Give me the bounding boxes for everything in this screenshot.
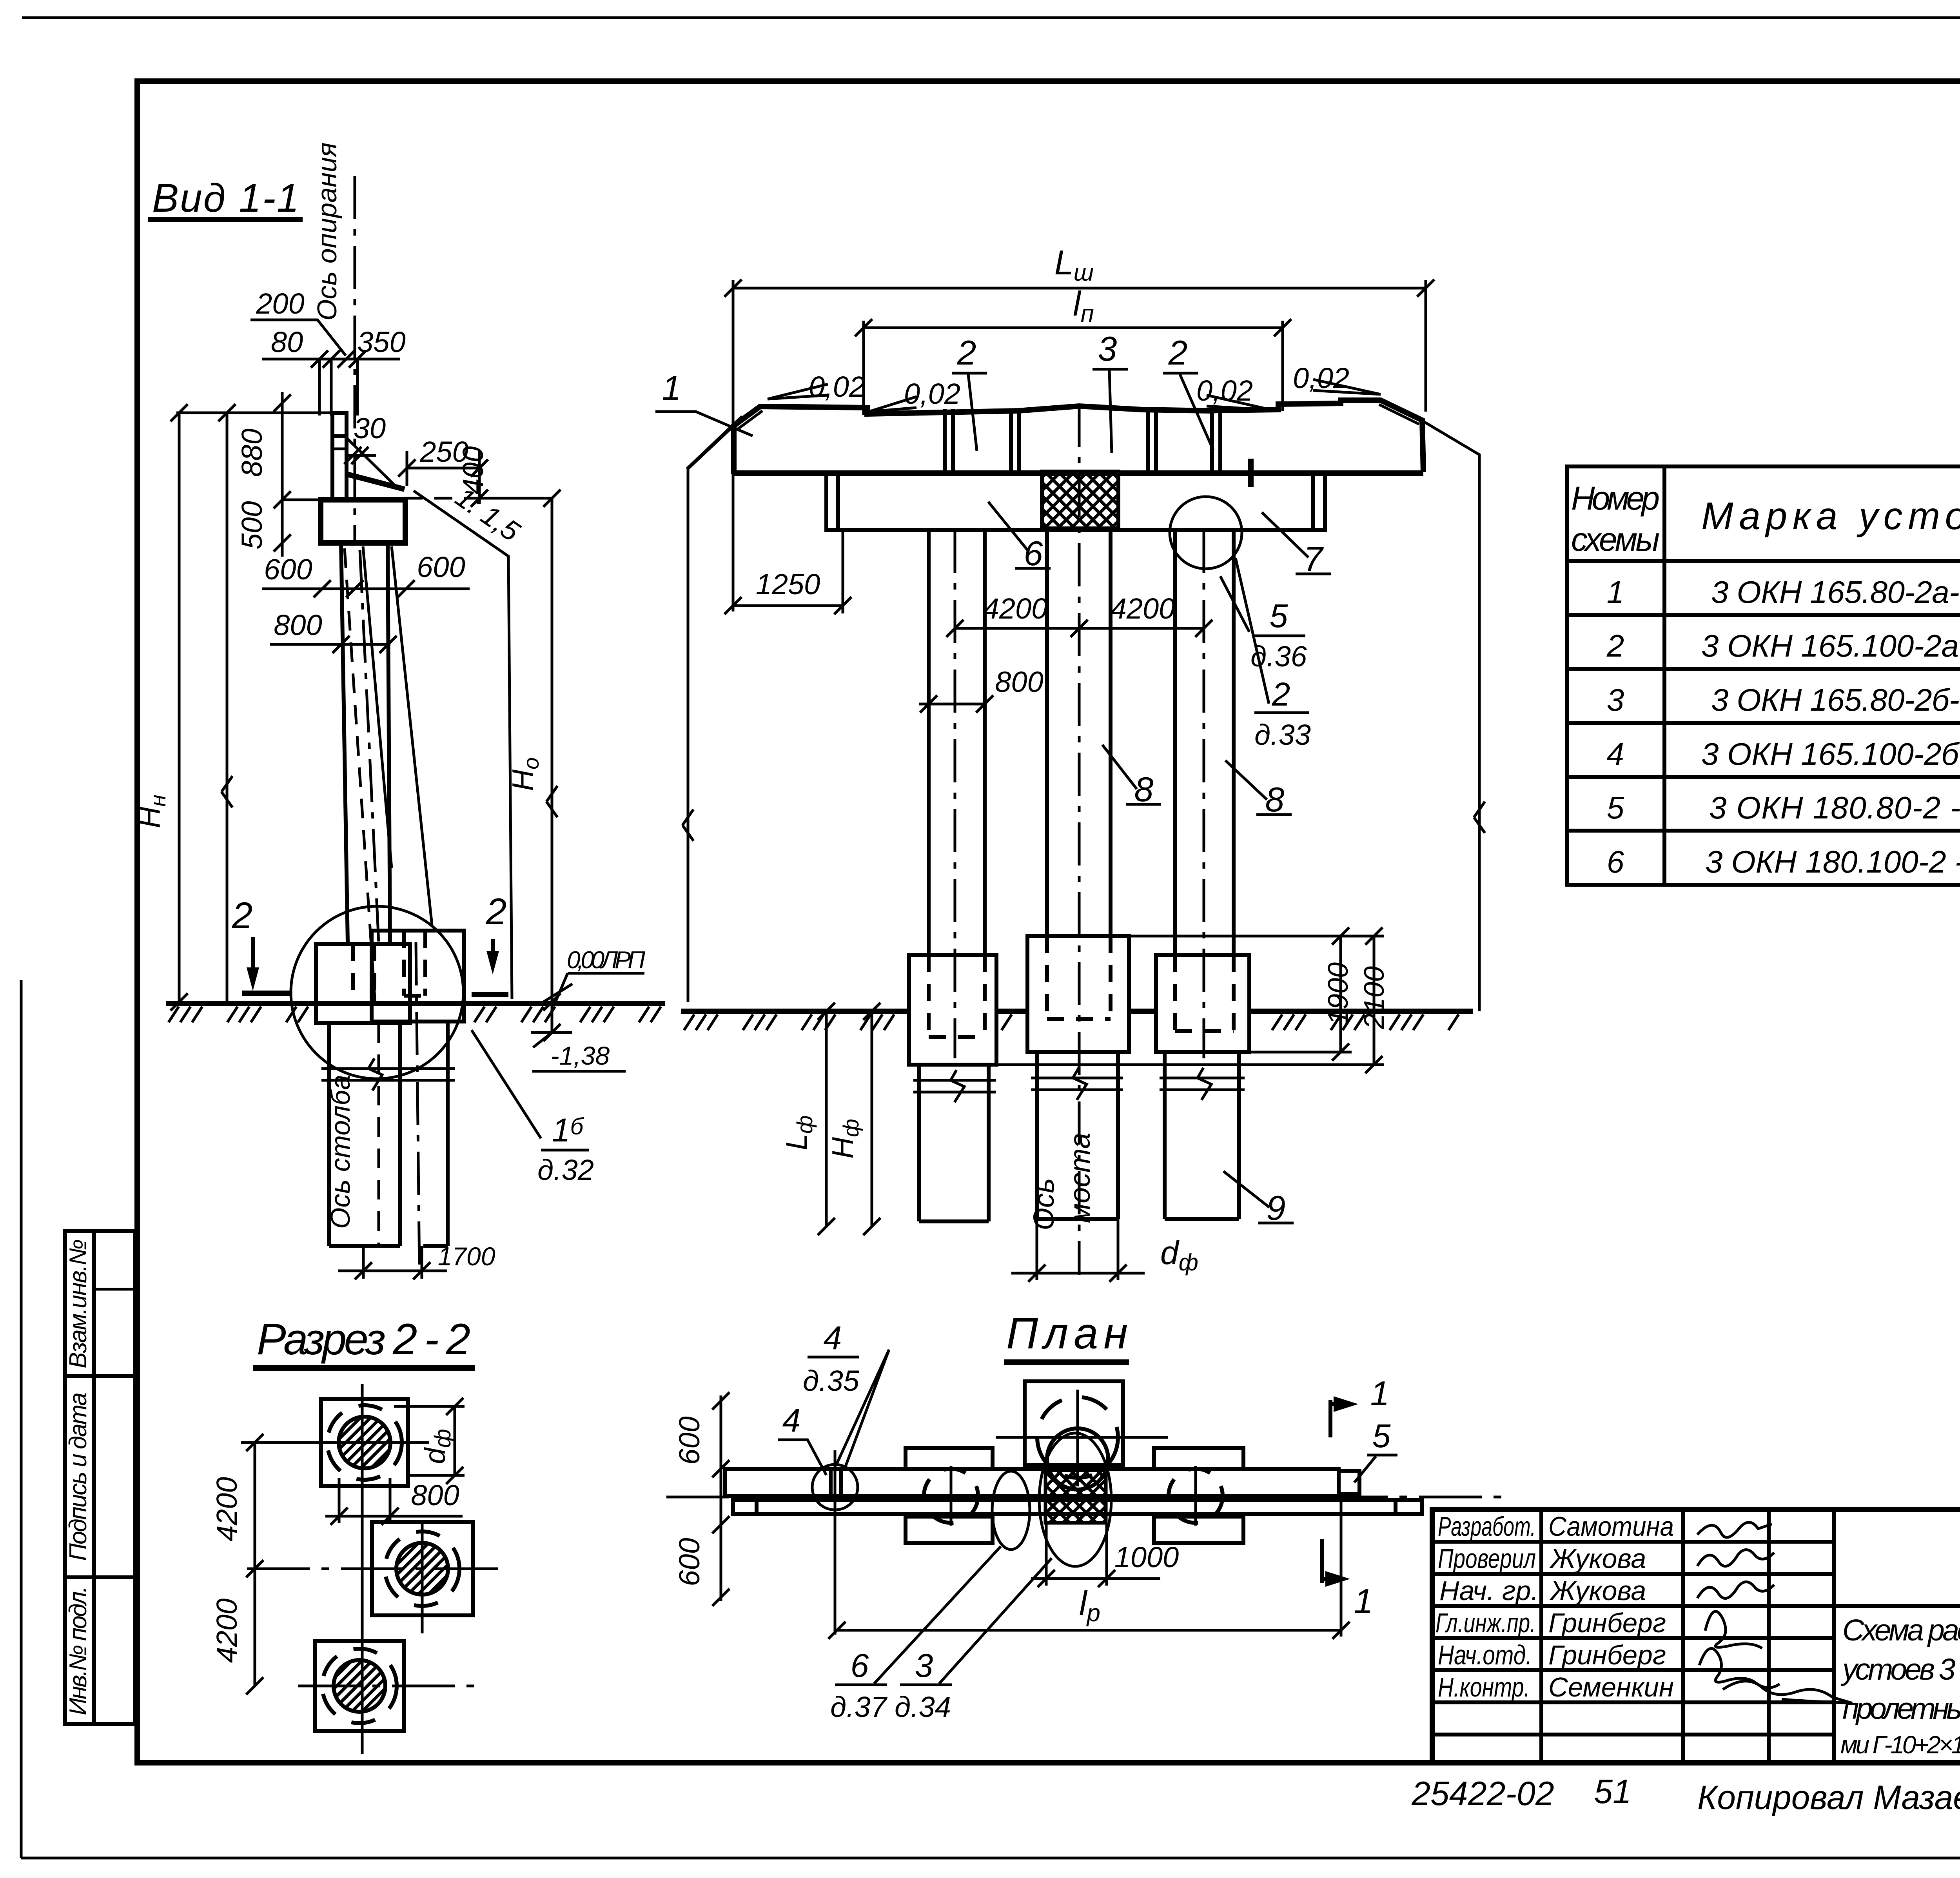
- bearing axis centerline: [354, 176, 356, 546]
- column shaft (battered): [341, 543, 348, 942]
- svg-text:Нач.отд.: Нач.отд.: [1438, 1640, 1532, 1670]
- svg-text:Разработ.: Разработ.: [1438, 1511, 1536, 1542]
- cabinet wall (shkafnaya stenka): [332, 413, 347, 500]
- central block square: [1025, 1381, 1123, 1465]
- deck slab outline: [734, 400, 1423, 474]
- top horizontal extension line at column top: [176, 412, 333, 414]
- svg-text:8: 8: [1134, 770, 1154, 809]
- dims Lf Hf: [825, 1011, 828, 1227]
- svg-text:2: 2: [1606, 628, 1624, 663]
- footing square 3: [315, 1641, 404, 1731]
- svg-text:1900: 1900: [1323, 962, 1354, 1025]
- svg-text:Семенкин: Семенкин: [1548, 1672, 1674, 1702]
- svg-text:9: 9: [1267, 1188, 1286, 1227]
- bearing pad mark: [1248, 459, 1254, 487]
- dims 600 600: [720, 1395, 722, 1601]
- leaders 6 7: [988, 502, 1051, 568]
- svg-text:6: 6: [851, 1647, 869, 1684]
- svg-text:5: 5: [1270, 597, 1288, 634]
- svg-text:4200: 4200: [211, 1599, 243, 1663]
- left wing edge to ground: [688, 426, 734, 1002]
- dims 1900 2100: [1131, 935, 1384, 938]
- bottom margin texts: [1411, 1773, 1960, 1816]
- svg-text:д.37: д.37: [830, 1691, 888, 1723]
- svg-text:Взам.инв.№: Взам.инв.№: [65, 1239, 92, 1368]
- svg-text:1700: 1700: [438, 1242, 495, 1271]
- svg-text:0,00ЛРП: 0,00ЛРП: [567, 947, 645, 974]
- svg-text:2: 2: [1272, 676, 1290, 713]
- detail circle (right bearing): [1170, 497, 1242, 569]
- fraction 2/d.33: [1236, 558, 1269, 704]
- fraction 5/d.36: [1220, 576, 1249, 632]
- column centerlines: [954, 530, 956, 1058]
- signatures: [1697, 1522, 1772, 1537]
- svg-text:3 ОКН 165.100-2б-ф: 3 ОКН 165.100-2б-ф: [1701, 737, 1960, 771]
- svg-text:ми Г-10+2×1,5;Г-11,5+2×0,75; Г: ми Г-10+2×1,5;Г-11,5+2×0,75; Г-11,5+2×1,…: [1840, 1731, 1960, 1759]
- svg-text:Жукова: Жукова: [1549, 1543, 1646, 1574]
- svg-text:3: 3: [1607, 682, 1624, 717]
- svg-text:200: 200: [256, 287, 304, 320]
- foundation sockets (footings, view 1-1): [316, 944, 410, 1023]
- svg-text:2: 2: [1168, 333, 1188, 372]
- svg-text:800: 800: [274, 609, 322, 641]
- svg-text:Гринберг: Гринберг: [1548, 1640, 1666, 1670]
- svg-text:3 ОКН 165.80-2а-ф: 3 ОКН 165.80-2а-ф: [1711, 575, 1960, 610]
- svg-text:3 ОКН 180.100-2 -ф: 3 ОКН 180.100-2 -ф: [1705, 844, 1960, 879]
- Ho dimension line: [551, 498, 554, 1002]
- svg-text:800: 800: [411, 1479, 459, 1511]
- svg-text:1: 1: [1607, 575, 1624, 610]
- cap beam: [826, 473, 1325, 530]
- svg-text:д.35: д.35: [803, 1364, 860, 1397]
- dim df right of sq1: [394, 1405, 465, 1408]
- slab joints: [945, 408, 1220, 473]
- svg-text:80: 80: [271, 326, 303, 358]
- right wing edge to ground: [1423, 421, 1479, 1011]
- svg-text:1: 1: [1370, 1374, 1390, 1413]
- bearing ledge slant: [347, 474, 405, 489]
- dim 1000: [1045, 1523, 1048, 1586]
- central hatched block: [1045, 1470, 1106, 1523]
- ground line (elevation): [681, 1009, 1473, 1014]
- svg-text:5: 5: [1372, 1417, 1391, 1454]
- svg-text:6: 6: [1024, 534, 1043, 573]
- piles below (view 1-1): [327, 1023, 331, 1246]
- svg-text:4200: 4200: [1111, 592, 1175, 625]
- ground line (view 1-1): [166, 1001, 665, 1006]
- dim 800 below sq1: [338, 1478, 341, 1523]
- svg-text:Самотина: Самотина: [1548, 1511, 1674, 1542]
- svg-text:Ось столба: Ось столба: [325, 1075, 356, 1229]
- svg-text:600: 600: [264, 553, 312, 586]
- dim df: [1036, 1219, 1038, 1280]
- svg-text:600: 600: [673, 1538, 706, 1586]
- svg-text:0,02: 0,02: [904, 377, 960, 410]
- columns: [929, 530, 1234, 955]
- svg-text:7: 7: [1304, 539, 1324, 578]
- svg-text:Схема расположения элементов: Схема расположения элементов: [1842, 1613, 1960, 1647]
- svg-text:4: 4: [1607, 737, 1624, 771]
- svg-text:Марка устоя: Марка устоя: [1701, 494, 1960, 537]
- slope line 1:1,5: [414, 491, 512, 999]
- left attachment column: [65, 1231, 135, 1724]
- svg-text:30: 30: [354, 412, 386, 445]
- svg-text:800: 800: [995, 666, 1043, 698]
- svg-text:пролетные строения с габарита-: пролетные строения с габарита-: [1842, 1692, 1960, 1726]
- svg-text:д.32: д.32: [537, 1154, 594, 1186]
- leaders 8 8: [1102, 745, 1161, 804]
- svg-text:0,02: 0,02: [1196, 374, 1253, 407]
- Hn dimension lines: [178, 413, 181, 1002]
- svg-text:3 ОКН 165.80-2б-ф: 3 ОКН 165.80-2б-ф: [1711, 682, 1960, 717]
- svg-text:Гринберг: Гринберг: [1548, 1608, 1666, 1638]
- svg-text:2: 2: [232, 895, 253, 936]
- footings: [909, 955, 996, 1065]
- dim 4200 / 4200: [254, 1443, 256, 1686]
- footing square 1: [321, 1399, 408, 1486]
- svg-text:д.34: д.34: [895, 1691, 951, 1723]
- fraction 1b/d.32: [472, 1030, 541, 1138]
- ground hatch marks: [169, 1007, 661, 1022]
- cap (nasadka): [321, 500, 405, 543]
- svg-text:1: 1: [662, 368, 681, 407]
- svg-text:4200: 4200: [983, 592, 1048, 625]
- svg-text:5: 5: [1607, 790, 1624, 825]
- dimensions table: [1567, 466, 1960, 885]
- svg-text:1250: 1250: [756, 568, 820, 601]
- piles: [919, 1065, 989, 1221]
- svg-text:880: 880: [236, 428, 268, 477]
- svg-text:Гл.инж.пр.: Гл.инж.пр.: [1436, 1608, 1536, 1638]
- svg-text:2100: 2100: [1359, 966, 1390, 1029]
- plan axis: [666, 1496, 1513, 1499]
- svg-text:Номер: Номер: [1571, 480, 1660, 517]
- dashed pile circles left/right: [924, 1469, 978, 1523]
- svg-text:-1,38: -1,38: [551, 1041, 610, 1070]
- svg-text:3: 3: [1098, 329, 1117, 368]
- svg-text:устоев 3 ОКНLш.Hн под плитные: устоев 3 ОКНLш.Hн под плитные: [1840, 1653, 1960, 1686]
- svg-text:Нач. гр.: Нач. гр.: [1439, 1575, 1539, 1606]
- cap strip: [725, 1469, 1339, 1496]
- svg-text:2: 2: [486, 891, 507, 933]
- dim Lp: [1340, 1496, 1343, 1637]
- svg-text:0,02: 0,02: [1293, 362, 1349, 394]
- lower thin strip: [733, 1500, 1422, 1514]
- rubber bearing block (hatched): [1042, 472, 1118, 528]
- svg-text:Ось опирания: Ось опирания: [312, 142, 342, 321]
- svg-text:600: 600: [417, 551, 465, 583]
- svg-text:Копировал Мазаева: Копировал Мазаева: [1697, 1779, 1960, 1816]
- footing square 2: [372, 1522, 473, 1615]
- svg-text:Разрез 2 - 2: Разрез 2 - 2: [257, 1315, 470, 1364]
- pile break marks: [321, 1058, 455, 1091]
- dim 880 / 500 vertical: [281, 392, 284, 557]
- svg-text:8: 8: [1265, 780, 1285, 819]
- pile break marks: [913, 1070, 996, 1102]
- dashed ledge level: [405, 497, 479, 500]
- level -1,38: [551, 1003, 554, 1032]
- svg-text:3 ОКН 165.100-2а-ф: 3 ОКН 165.100-2а-ф: [1701, 628, 1960, 663]
- svg-text:3: 3: [915, 1647, 933, 1684]
- svg-text:1: 1: [1354, 1582, 1373, 1620]
- svg-text:2: 2: [957, 333, 976, 372]
- svg-text:Проверил: Проверил: [1438, 1543, 1536, 1574]
- svg-text:Н.контр.: Н.контр.: [1438, 1672, 1530, 1702]
- svg-text:3 ОКН 180.80-2 -ф: 3 ОКН 180.80-2 -ф: [1709, 790, 1960, 825]
- side blocks: [906, 1448, 993, 1469]
- svg-text:600: 600: [673, 1416, 706, 1464]
- svg-text:Подпись и дата: Подпись и дата: [65, 1392, 92, 1561]
- svg-text:4: 4: [782, 1402, 801, 1439]
- svg-text:6: 6: [1607, 844, 1624, 879]
- leader 9: [1223, 1171, 1294, 1223]
- title block: [1432, 1510, 1960, 1764]
- svg-text:схемы: схемы: [1571, 521, 1660, 558]
- detail circle: [291, 906, 463, 1079]
- svg-text:Ось: Ось: [1027, 1178, 1060, 1230]
- svg-text:4: 4: [824, 1319, 842, 1356]
- svg-text:1000: 1000: [1114, 1541, 1179, 1573]
- detail ellipses: [1039, 1433, 1111, 1566]
- dim 1700: [362, 1246, 365, 1279]
- svg-text:25422-02: 25422-02: [1411, 1775, 1554, 1813]
- svg-text:500: 500: [236, 501, 268, 549]
- svg-text:4200: 4200: [211, 1477, 243, 1542]
- pile circle center (solid + dashed): [1047, 1428, 1108, 1490]
- svg-text:моста: моста: [1063, 1133, 1096, 1223]
- svg-text:д.33: д.33: [1254, 719, 1311, 751]
- svg-text:План: План: [1006, 1309, 1128, 1358]
- centerlines: [361, 1384, 364, 1754]
- svg-text:51: 51: [1594, 1773, 1632, 1811]
- detail circle left end: [812, 1464, 858, 1510]
- svg-text:Жукова: Жукова: [1549, 1575, 1646, 1606]
- svg-text:Инв.№ подл.: Инв.№ подл.: [65, 1586, 92, 1715]
